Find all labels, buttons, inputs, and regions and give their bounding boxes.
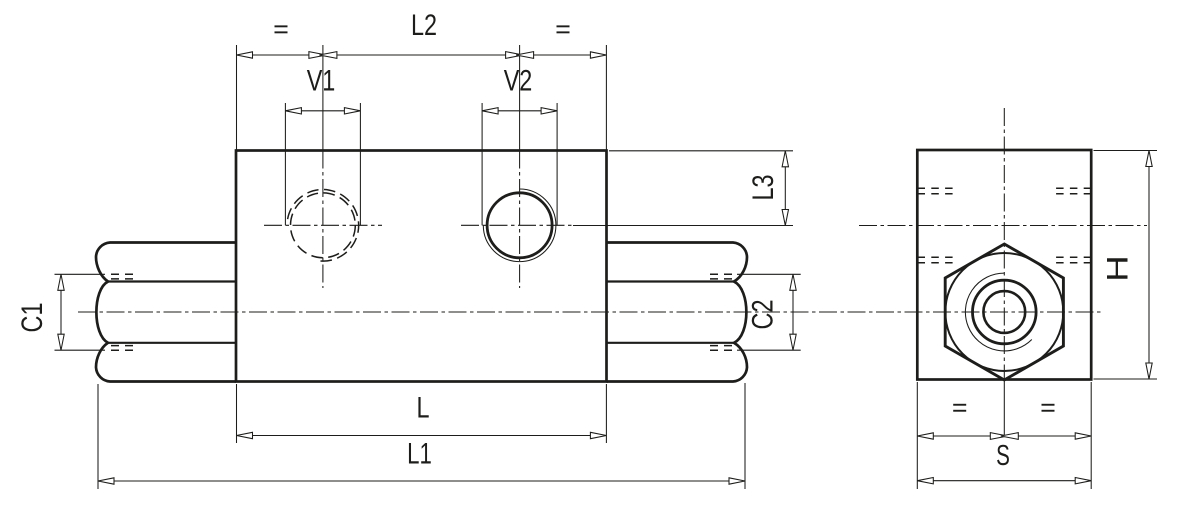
svg-text:L3: L3 bbox=[746, 174, 779, 200]
svg-text:S: S bbox=[996, 440, 1010, 472]
svg-text:V1: V1 bbox=[307, 64, 336, 97]
svg-text:L: L bbox=[416, 391, 429, 424]
svg-text:V2: V2 bbox=[504, 64, 533, 97]
svg-text:C2: C2 bbox=[746, 300, 779, 330]
svg-text:C1: C1 bbox=[15, 303, 48, 333]
svg-text:H: H bbox=[1102, 255, 1135, 281]
svg-text:L2: L2 bbox=[411, 8, 437, 41]
svg-text:L1: L1 bbox=[407, 436, 432, 470]
